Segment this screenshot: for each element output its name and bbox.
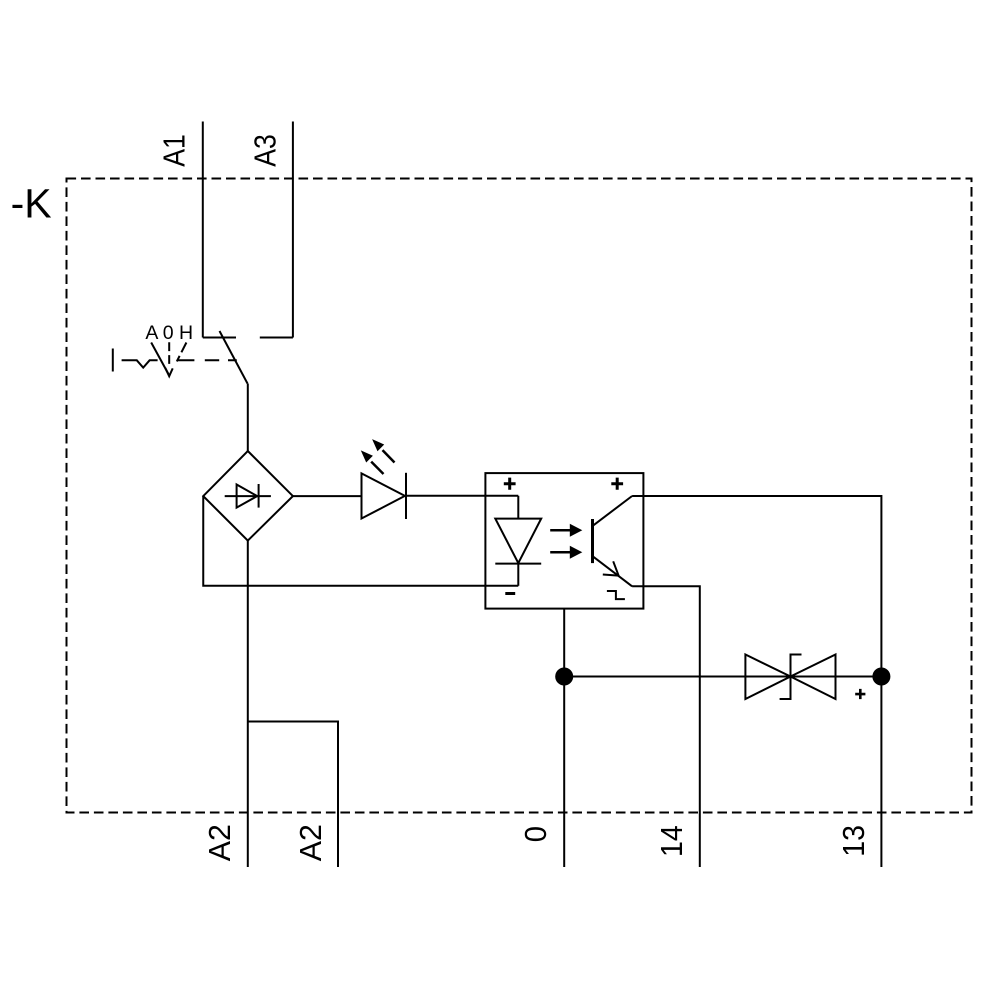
LED D1 triangle [362, 473, 405, 518]
optocoupler LED triangle [495, 519, 541, 564]
selector actuator stop tick [112, 349, 114, 372]
optocoupler cathode wire down [517, 564, 519, 586]
selector position 0 pointer (dashed, with arrowhead) [168, 342, 170, 367]
TVS center bar with hooks [780, 655, 802, 700]
svg-text:-K: -K [11, 181, 52, 227]
plus sign (node 13 polarity) [855, 689, 865, 699]
wire LED to optocoupler anode [406, 495, 518, 497]
plus sign (input +) [504, 478, 516, 490]
junction node 0 [555, 668, 573, 686]
module outline -K (dashed enclosure) [67, 179, 972, 813]
TVS suppressor diode V2 (bidirectional) left triangle [745, 655, 790, 700]
switch S1 fixed contact tick (A3) [260, 337, 293, 339]
terminal A3 lead [292, 122, 294, 338]
wire bridge AC2 down to terminal A2 [247, 541, 249, 867]
bridge rectifier V1 (diamond) [203, 451, 293, 541]
wire optocoupler common to terminal 0 [563, 609, 565, 867]
terminal A1 lead [202, 122, 204, 338]
light coupling arrow 2 [550, 546, 582, 559]
wire collector to node 13 [632, 496, 881, 667]
wire bridge DC- to optocoupler cathode [203, 496, 518, 586]
wire emitter to terminal 14 [632, 586, 700, 867]
svg-text:0: 0 [519, 826, 553, 842]
phototransistor collector [593, 496, 632, 525]
LED emission arrow 2 [361, 450, 384, 474]
plus sign (output +) [611, 478, 623, 490]
optocoupler LED cathode bar [495, 563, 541, 565]
selector position A pointer (solid) [151, 343, 169, 376]
wire TVS net [564, 676, 881, 678]
junction node 13 [872, 668, 890, 686]
bridge rectifier inner diode [225, 495, 271, 497]
svg-text:A3: A3 [248, 134, 282, 167]
wire A2 branch to second A2 terminal [248, 722, 338, 868]
wire bridge DC+ to LED [293, 495, 362, 497]
svg-text:A 0 H: A 0 H [145, 322, 193, 344]
optocoupler U1 box [485, 473, 643, 608]
LED D1 cathode bar [405, 473, 407, 519]
LED emission arrow 1 [372, 439, 394, 462]
switching edge symbol [607, 591, 625, 599]
svg-text:A2: A2 [202, 824, 237, 861]
optocoupler input diode drop wire [517, 496, 519, 519]
wire node 13 to terminal 13 [880, 667, 882, 867]
phototransistor Q1 base bar [591, 519, 594, 563]
svg-text:14: 14 [655, 825, 689, 857]
svg-text:A1: A1 [157, 134, 191, 167]
selector linkage dashed line with detent zigzag [122, 360, 158, 367]
phototransistor emitter [593, 557, 632, 587]
switch S1 fixed contact tick (A1) [203, 337, 236, 339]
minus sign (input -) [505, 592, 515, 595]
TVS right triangle [791, 655, 836, 700]
svg-text:A2: A2 [293, 824, 328, 861]
phototransistor emitter arrowhead [603, 561, 619, 575]
svg-text:13: 13 [837, 825, 871, 857]
wire switch arm to bridge top [247, 384, 249, 452]
selector position H pointer (dashed) [177, 343, 187, 362]
switch S1 moving contact arm [220, 331, 248, 384]
light coupling arrow 1 [550, 524, 582, 537]
